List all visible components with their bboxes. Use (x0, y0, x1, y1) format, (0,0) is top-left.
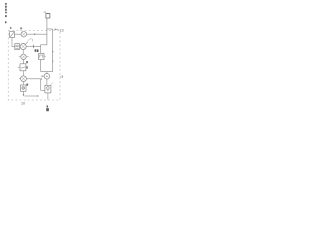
svg-text:11: 11 (43, 10, 46, 14)
svg-text:3: 3 (61, 75, 63, 79)
svg-text:13: 13 (59, 28, 63, 32)
svg-text:10: 10 (21, 102, 25, 106)
